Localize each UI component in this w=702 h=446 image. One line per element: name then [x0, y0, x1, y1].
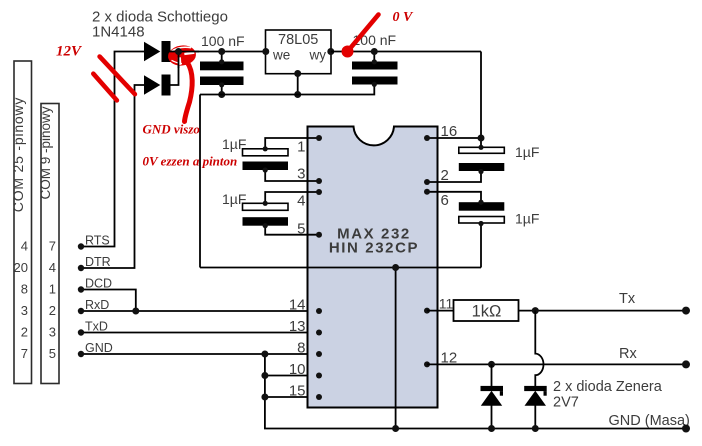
- wire diode D2 cathode up to node: [171, 52, 179, 86]
- terminal Tx: [682, 307, 690, 315]
- svg-text:1kΩ: 1kΩ: [472, 303, 502, 321]
- svg-text:3: 3: [297, 166, 305, 183]
- connector J1 COM 25-pinowy box: [10, 61, 32, 384]
- connector J2 COM 9-pinowy box: [38, 104, 59, 384]
- red probe line: [350, 15, 379, 49]
- svg-text:DTR: DTR: [85, 255, 111, 269]
- wire pin 16: [427, 137, 481, 139]
- svg-text:20: 20: [14, 260, 28, 275]
- capacitor C1 100nF: [200, 48, 244, 98]
- capacitor C3 1uF (left top): [243, 138, 320, 181]
- wire pin 12 to Rx: [427, 363, 686, 365]
- svg-text:Tx: Tx: [619, 291, 636, 307]
- svg-text:COM 25 -pinowy: COM 25 -pinowy: [10, 97, 26, 212]
- terminal GND: [682, 425, 690, 433]
- wire GND branch down to bottom rail: [265, 354, 686, 429]
- svg-text:4: 4: [297, 193, 305, 210]
- svg-text:2V7: 2V7: [553, 395, 579, 411]
- IC pin dots right: [424, 135, 430, 141]
- zener diode Z1: [481, 364, 504, 432]
- svg-text:1µF: 1µF: [222, 136, 246, 152]
- red slash 1: [100, 57, 135, 95]
- left vertical wire down: [199, 95, 201, 268]
- svg-text:10: 10: [289, 361, 306, 378]
- svg-text:14: 14: [289, 297, 306, 314]
- junction bottom rail: [392, 425, 399, 432]
- svg-text:4: 4: [49, 260, 56, 275]
- capacitor C2 100nF: [352, 48, 398, 87]
- node dot DTR: [78, 265, 84, 271]
- diode D2: [144, 75, 171, 96]
- svg-text:1: 1: [49, 282, 56, 297]
- wire RTS to diode D1: [81, 52, 144, 247]
- svg-text:1µF: 1µF: [222, 191, 246, 207]
- svg-text:1N4148: 1N4148: [92, 24, 145, 41]
- svg-text:8: 8: [297, 340, 305, 357]
- ground rail under 78L05: [200, 85, 374, 95]
- svg-text:15: 15: [289, 383, 306, 400]
- J2 pin numbers 7 4 1 2 3 5: [49, 239, 56, 362]
- wire branch to pin 10: [265, 375, 319, 377]
- svg-text:8: 8: [21, 282, 28, 297]
- wire diode D1 to 78L05: [171, 51, 266, 53]
- wire DTR to diode D2: [81, 85, 144, 268]
- capacitor C6 1uF (right bottom): [427, 192, 504, 268]
- svg-text:12V: 12V: [56, 44, 83, 60]
- svg-text:COM 9 -pinowy: COM 9 -pinowy: [38, 106, 53, 199]
- svg-text:TxD: TxD: [85, 320, 108, 334]
- svg-text:wy: wy: [309, 48, 327, 63]
- wire down to pin 16 junction: [480, 52, 482, 148]
- svg-text:6: 6: [441, 192, 449, 209]
- resistor R1 1k: [454, 300, 519, 321]
- junction pin15 branch: [261, 394, 268, 401]
- junction pin16/cap: [478, 135, 485, 142]
- zener diode Z2: [524, 386, 547, 432]
- svg-text:2: 2: [441, 167, 449, 184]
- junction mid wire: [392, 264, 399, 271]
- regulator U2 78L05: [262, 30, 334, 98]
- diode D1: [144, 41, 171, 62]
- svg-text:2: 2: [21, 325, 28, 340]
- svg-text:4: 4: [21, 239, 28, 254]
- red curve to GND viszo: [185, 62, 193, 122]
- terminal Rx: [682, 360, 690, 368]
- svg-text:GND: GND: [85, 341, 113, 355]
- svg-text:5: 5: [49, 346, 56, 361]
- node dot RxD: [78, 308, 84, 314]
- svg-text:we: we: [272, 48, 290, 63]
- node dot GND: [78, 351, 84, 357]
- IC pin dots left: [316, 135, 322, 141]
- junction node diodes: [175, 48, 182, 55]
- red probe dot on 0V wire: [342, 46, 354, 58]
- svg-text:11: 11: [439, 296, 454, 312]
- svg-text:13: 13: [289, 318, 306, 335]
- svg-text:RTS: RTS: [85, 234, 110, 248]
- internal vertical wire to bottom rail: [395, 268, 397, 429]
- wire TxD to pin 13: [81, 332, 319, 334]
- svg-text:1: 1: [297, 139, 305, 156]
- svg-text:16: 16: [441, 123, 458, 140]
- svg-text:GND viszo: GND viszo: [143, 122, 201, 137]
- wire DCD down to RxD: [81, 290, 136, 312]
- wire 78L05 output to right: [331, 51, 481, 53]
- IC U1 MAX232 body: [308, 127, 438, 408]
- wire over red node: [166, 51, 199, 53]
- red ellipse marker on node: [167, 44, 197, 67]
- junction zener 1: [488, 361, 495, 368]
- node dot DCD: [78, 286, 84, 292]
- svg-text:3: 3: [21, 303, 28, 318]
- svg-text:2 x dioda Zenera: 2 x dioda Zenera: [553, 379, 663, 395]
- svg-text:78L05: 78L05: [278, 32, 318, 48]
- svg-text:1µF: 1µF: [515, 211, 539, 227]
- svg-text:0 V: 0 V: [393, 10, 415, 25]
- svg-text:100 nF: 100 nF: [201, 33, 245, 49]
- capacitor C4 1uF (left bottom): [243, 192, 320, 235]
- svg-text:DCD: DCD: [85, 277, 112, 291]
- svg-text:7: 7: [49, 239, 56, 254]
- wire RxD to pin 14: [81, 310, 319, 312]
- node dot RTS: [78, 243, 84, 249]
- svg-text:HIN 232CP: HIN 232CP: [329, 240, 419, 257]
- junction Tx branch: [532, 307, 539, 314]
- junction DCD-RxD: [132, 308, 139, 315]
- red slash 2: [93, 74, 117, 101]
- wire GND to pin 8: [81, 353, 319, 355]
- wire branch to pin 15: [265, 396, 319, 398]
- wire pin 11 to resistor: [427, 310, 454, 312]
- node dot TxD: [78, 329, 84, 335]
- svg-text:RxD: RxD: [85, 298, 109, 312]
- svg-text:2: 2: [49, 303, 56, 318]
- svg-text:0V ezzen a pinton: 0V ezzen a pinton: [143, 154, 238, 169]
- svg-text:1µF: 1µF: [515, 144, 539, 160]
- mid horizontal wire through IC: [200, 267, 481, 269]
- svg-text:GND (Masa): GND (Masa): [609, 413, 690, 429]
- wire resistor to Tx: [519, 310, 687, 312]
- svg-text:5: 5: [297, 221, 305, 238]
- J1 pin numbers 4 20 8 3 2 7: [14, 239, 28, 362]
- svg-text:Rx: Rx: [619, 346, 637, 362]
- capacitor C5 1uF (right top): [427, 145, 504, 182]
- junction GND branch: [261, 351, 268, 358]
- junction pin10 branch: [261, 372, 268, 379]
- Tx branch down with hop over Rx: [535, 311, 543, 386]
- svg-text:7: 7: [21, 346, 28, 361]
- svg-text:3: 3: [49, 325, 56, 340]
